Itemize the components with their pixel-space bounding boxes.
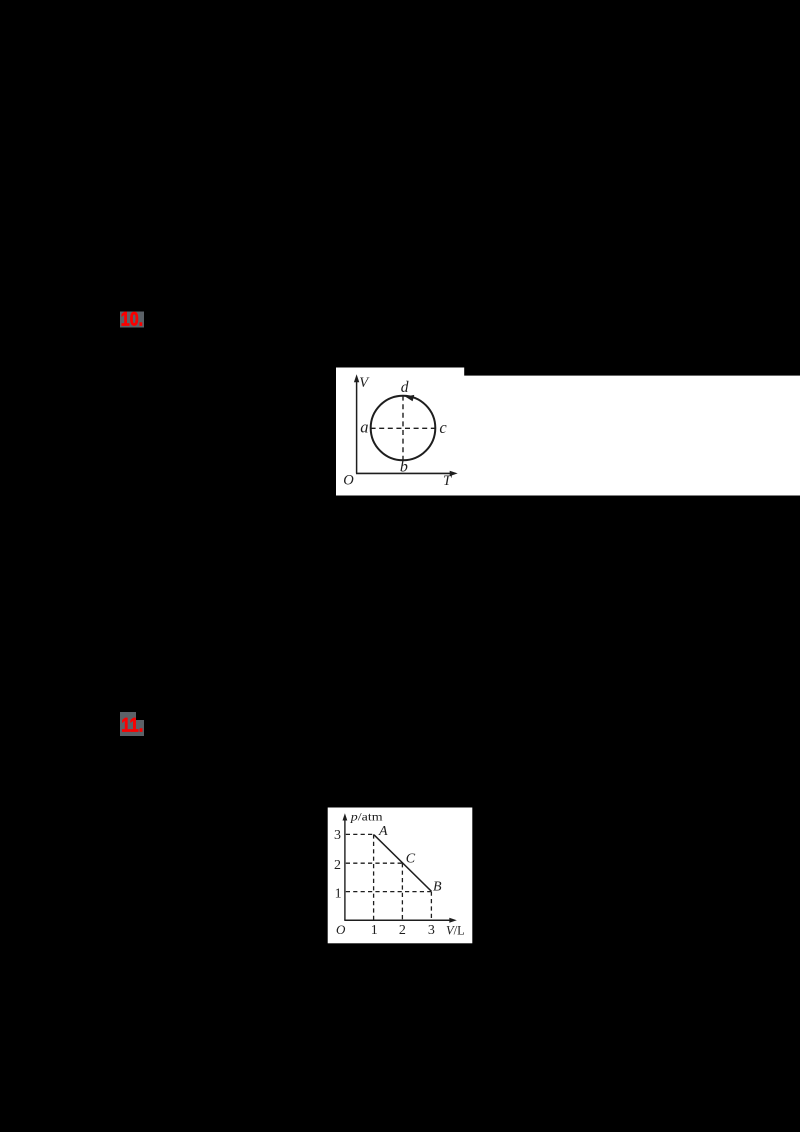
svg-text:10.: 10. [121, 309, 143, 330]
figure 2 : process line A-C-B [374, 835, 431, 892]
svg-text:A: A [378, 824, 388, 839]
svg-text:C: C [406, 851, 416, 866]
figure 2 : p axis arrowhead [343, 813, 348, 820]
figure 1 : T axis [356, 472, 453, 474]
svg-text:3: 3 [428, 923, 435, 938]
figure 1 white panel (left stepped part) [336, 368, 464, 496]
figure 2 : dashed line p=1 [346, 891, 432, 893]
figure 2 : dashed line p=3 [346, 833, 374, 835]
figure 2 : dashed line V=1 [373, 834, 375, 919]
figure 1 white panel (wide right band) [464, 376, 800, 496]
svg-text:3: 3 [334, 828, 341, 843]
svg-text:T: T [443, 473, 452, 489]
svg-text:11.: 11. [121, 715, 143, 736]
svg-text:V/L: V/L [446, 923, 465, 937]
svg-text:1: 1 [371, 923, 378, 938]
svg-text:c: c [439, 418, 447, 437]
figure 2 : dashed line p=2 [346, 862, 403, 864]
svg-text:p/atm: p/atm [350, 810, 383, 823]
question badge 10 highlight [120, 312, 144, 328]
figure 1 : cycle circle [371, 396, 436, 461]
svg-text:B: B [433, 880, 442, 895]
figure 2 : V axis arrowhead [449, 918, 457, 923]
figure 2 : V axis [344, 919, 452, 921]
svg-text:2: 2 [399, 923, 406, 938]
svg-text:1: 1 [335, 886, 342, 901]
figure 1 : direction arrowhead on circle top [405, 395, 414, 401]
figure 1 : V axis arrowhead [354, 374, 359, 382]
figure 1 : T axis arrowhead [450, 471, 458, 476]
figure 1 : dashed horizontal line a-c [371, 427, 436, 429]
question badge 11 highlight [120, 712, 144, 736]
svg-text:a: a [360, 417, 368, 436]
figure 2 : p axis [344, 817, 346, 920]
figure 2 : dashed line V=2 [401, 863, 403, 919]
svg-text:b: b [400, 459, 408, 476]
figure 2 white panel [328, 808, 473, 944]
svg-text:2: 2 [334, 858, 341, 873]
figure 2 : dashed line V=3 [430, 892, 432, 920]
figure 1 : dashed vertical line d-b [402, 396, 404, 461]
figure 1 : V axis [356, 379, 358, 473]
svg-text:O: O [336, 922, 346, 937]
svg-text:d: d [401, 379, 409, 396]
svg-text:O: O [343, 472, 354, 488]
